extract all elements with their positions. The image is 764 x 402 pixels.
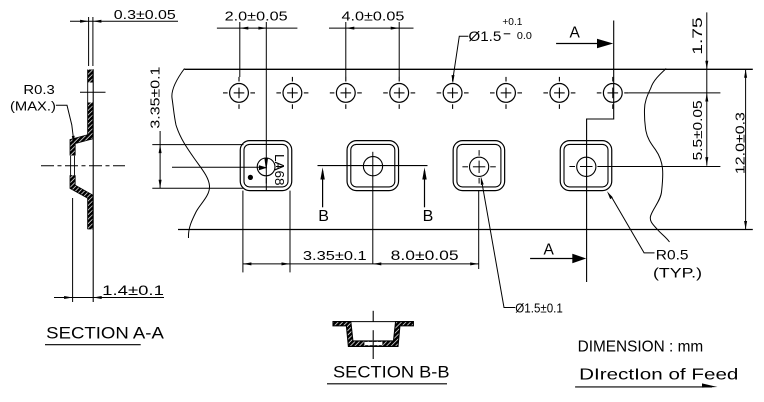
svg-text:SECTION B-B: SECTION B-B (333, 363, 450, 382)
section line B-B horizontal (318, 165, 428, 167)
sprocket hole 8 long centerline (629, 92, 721, 94)
dimension 3.35±0.1 vertical (left of pockets) (159, 131, 161, 189)
sprocket hole 3 (336, 84, 355, 103)
dimension 4.0±0.05 dim line and arrows (329, 27, 414, 29)
svg-text:5.5±0.05: 5.5±0.05 (690, 100, 705, 160)
dimension 2.0±0.05 dim line and arrows (217, 27, 298, 29)
section B-B profile (333, 322, 413, 347)
section B-B centerline (372, 311, 374, 322)
section B-B mouth top line (351, 321, 396, 323)
section arrow B left (322, 171, 324, 207)
svg-text:R0.5: R0.5 (656, 248, 689, 263)
bottom dimension extension lines (242, 191, 244, 273)
sprocket hole 6 (497, 84, 516, 103)
pocket 2 (347, 141, 399, 191)
pocket 4 (560, 141, 612, 191)
svg-text:A: A (570, 24, 581, 41)
section A-A profile: tape strip hatched bars (73, 70, 91, 230)
section arrow B right (424, 171, 426, 207)
svg-text:3.35±0.1: 3.35±0.1 (303, 248, 367, 263)
pocket 3 (453, 141, 505, 191)
left break line (172, 69, 210, 239)
svg-text:(MAX.): (MAX.) (10, 99, 56, 114)
section line A-A (587, 21, 614, 283)
pocket 3 crosshair (462, 150, 495, 183)
svg-text:LA68: LA68 (272, 154, 287, 186)
svg-text:3.35±0.1: 3.35±0.1 (147, 67, 162, 129)
svg-text:12.0±0.3: 12.0±0.3 (733, 112, 748, 174)
section arrow A top (556, 43, 601, 45)
tape top edge (185, 68, 753, 70)
svg-text:DIrectIon of Feed: DIrectIon of Feed (579, 367, 738, 384)
section A-A sprocket hole gap edge (87, 83, 89, 103)
dimension 1.4±0.1 dim line and arrows (54, 297, 164, 299)
dimension 0.3±0.05 dim line and arrows (70, 20, 178, 22)
sprocket hole 8 (603, 84, 622, 103)
section A-A sprocket hole centerline (80, 91, 106, 93)
pocket 1 horizontal centerline with arrow (172, 166, 259, 168)
section A-A pocket hole gap edges (70, 156, 72, 176)
leader Ø1.5 tolerance (453, 36, 468, 75)
leader Ø1.5±0.1 (482, 185, 515, 308)
dimension 2.0±0.05 extension line at hole 1 (239, 22, 241, 77)
sprocket hole 1 (230, 84, 249, 103)
dimension 1.75 / 5.5±0.05 dim line (706, 12, 708, 165)
pocket 1 (240, 141, 292, 191)
svg-text:8.0±0.05: 8.0±0.05 (391, 248, 459, 263)
svg-text:(TYP.): (TYP.) (653, 266, 702, 281)
svg-text:Ø1.5: Ø1.5 (468, 29, 501, 44)
feed direction underline with arrow (575, 386, 712, 388)
svg-text:0.0: 0.0 (517, 30, 532, 42)
bottom dim line (243, 263, 479, 265)
svg-text:DIMENSION : mm: DIMENSION : mm (578, 339, 704, 356)
sprocket hole 7 (550, 84, 569, 103)
underline SECTION A-A (45, 344, 141, 346)
pocket 1 circle ticks (265, 178, 267, 184)
pocket 2 vertical centerline (372, 152, 374, 264)
underline SECTION B-B (327, 383, 447, 385)
svg-text:+0.1: +0.1 (502, 16, 522, 28)
pocket 4 horizontal centerline (569, 166, 720, 168)
dimension 12.0±0.3 dim line and arrows (745, 69, 747, 229)
svg-text:B: B (423, 208, 434, 225)
sprocket hole 5 (443, 84, 462, 103)
sprocket hole 4 (390, 84, 409, 103)
pocket 1 polarity dot (248, 175, 253, 180)
section A-A pocket centerline dash-dot (41, 165, 125, 167)
tape bottom edge (178, 229, 753, 231)
pocket 1 vertical arrow (264, 158, 268, 171)
dimension 1.4±0.1 extension line (72, 198, 74, 302)
svg-text:SECTION A-A: SECTION A-A (46, 324, 164, 343)
sprocket hole crosshairs (223, 77, 629, 109)
sprocket holes row (230, 84, 623, 103)
svg-text:1.4±0.1: 1.4±0.1 (102, 283, 164, 298)
leader R0.5 (611, 196, 655, 253)
svg-text:4.0±0.05: 4.0±0.05 (342, 9, 405, 24)
svg-text:1.75: 1.75 (689, 17, 705, 55)
svg-text:B: B (318, 208, 329, 225)
right break line (644, 69, 669, 243)
section arrow A bottom (530, 258, 574, 260)
leader R0.3 (56, 105, 73, 136)
svg-text:Ø1.5±0.1: Ø1.5±0.1 (515, 301, 563, 316)
svg-text:A: A (544, 242, 555, 259)
section A-A back edge line (92, 69, 94, 302)
svg-text:R0.3: R0.3 (23, 82, 54, 97)
sprocket hole 2 (283, 84, 302, 103)
svg-text:2.0±0.05: 2.0±0.05 (225, 9, 288, 24)
svg-text:0.3±0.05: 0.3±0.05 (114, 7, 176, 22)
section B-B hole gap (364, 342, 383, 345)
dimension 0.3±0.05 extension lines (88, 17, 90, 66)
pocket 3 extension line down (478, 191, 480, 269)
dimension 4.0±0.05 extension lines (345, 22, 347, 77)
pocket 1 vertical centerline / extension (265, 22, 267, 191)
